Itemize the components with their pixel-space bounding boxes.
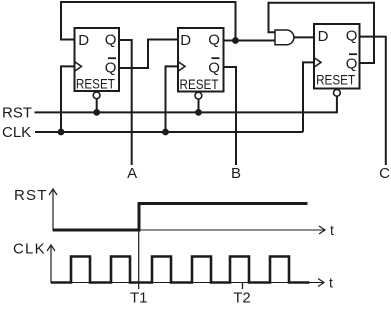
wire: AND gate output to FF3 D input <box>294 36 314 38</box>
junction dot CLK/FF2 <box>162 129 169 136</box>
wire: FF2 Q-bar down to node B <box>224 67 237 165</box>
svg-text:RESET: RESET <box>316 72 355 88</box>
FF2 pin label Q-bar <box>208 58 220 76</box>
CLK timing vertical axis with arrow <box>47 245 55 283</box>
svg-text:Q: Q <box>346 55 358 72</box>
svg-text:Q: Q <box>346 28 358 45</box>
svg-text:Q: Q <box>105 59 117 76</box>
svg-text:RST: RST <box>2 105 32 122</box>
wire: FF1 clock from CLK bus <box>61 66 75 132</box>
FF1 pin label Q-bar <box>105 58 117 76</box>
RST timing time axis with arrow <box>53 226 325 234</box>
svg-text:D: D <box>180 32 191 49</box>
svg-text:t: t <box>329 275 333 291</box>
wire: FF2 clock from CLK bus <box>166 66 179 132</box>
wire: FF3 Q output down to node C <box>360 37 386 165</box>
wire: FF1 reset bubble to RST bus <box>96 99 98 113</box>
svg-text:RESET: RESET <box>76 76 115 92</box>
junction dot CLK/FF1 <box>58 129 65 136</box>
RST timing vertical axis with arrow <box>49 189 57 231</box>
wire: FF2 reset bubble to RST bus <box>198 99 200 113</box>
svg-text:CLK: CLK <box>13 241 46 258</box>
svg-text:C: C <box>379 165 390 182</box>
svg-text:D: D <box>78 32 89 49</box>
FF3 reset bubble <box>334 89 341 96</box>
FF2 reset bubble <box>195 92 202 99</box>
CLK waveform trace <box>51 257 310 283</box>
svg-text:D: D <box>318 28 329 45</box>
svg-text:B: B <box>231 165 241 182</box>
FF2 clock input triangle <box>178 62 185 72</box>
RST waveform trace <box>53 204 308 231</box>
FF1 reset bubble <box>93 92 100 99</box>
T1 marker line <box>138 230 140 289</box>
wire: RST bus <box>35 96 337 112</box>
junction dot RST/FF1 <box>93 109 100 116</box>
flip-flop FF3 body <box>314 24 360 89</box>
svg-text:t: t <box>330 222 334 238</box>
wire: FF3 Q-bar feedback over the top to AND gate upper input <box>269 3 375 63</box>
junction dot node Q2 <box>232 37 239 44</box>
svg-text:RST: RST <box>14 187 48 204</box>
wire: FF1 Q output down to node A <box>119 40 132 165</box>
svg-text:Q: Q <box>208 32 220 49</box>
svg-text:RESET: RESET <box>180 76 219 92</box>
FF3 clock input triangle <box>314 58 321 68</box>
junction dot RST/FF2 <box>195 109 202 116</box>
wire: FF2 Q output to AND gate lower input <box>224 40 276 42</box>
svg-text:A: A <box>127 165 137 182</box>
flip-flop FF2 body <box>178 28 224 92</box>
flip-flop FF1 body <box>75 28 120 91</box>
wire: FF1 Q-bar to FF2 D input <box>119 40 178 69</box>
svg-text:T2: T2 <box>233 290 251 307</box>
wire: FF3 clock from CLK bus <box>303 62 314 132</box>
wire: CLK bus <box>35 131 303 133</box>
svg-text:CLK: CLK <box>2 124 31 141</box>
AND gate U1 <box>275 30 294 45</box>
svg-text:T1: T1 <box>130 290 148 307</box>
CLK timing time axis with arrow <box>51 279 324 287</box>
svg-text:Q: Q <box>208 59 220 76</box>
FF3 pin label Q-bar <box>346 54 358 72</box>
FF1 clock input triangle <box>75 62 82 72</box>
wire: feedback from node Q2 up over the top to FF1 D input <box>61 2 236 41</box>
svg-text:Q: Q <box>105 32 117 49</box>
T2 tick mark <box>242 283 244 289</box>
